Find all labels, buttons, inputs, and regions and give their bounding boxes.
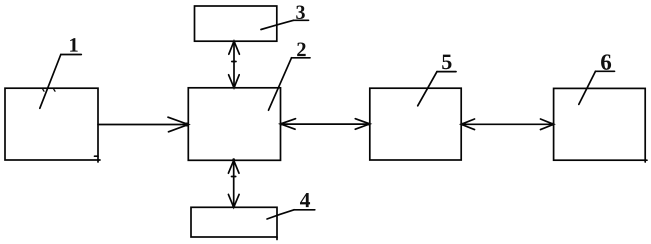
box 3 [195, 6, 277, 41]
tick on wire [232, 176, 236, 178]
arrowhead into box2 left [168, 117, 188, 132]
arrowhead at box6 left pointing right [541, 119, 554, 130]
box 1 corner overshoot ticks [95, 156, 101, 162]
arrowhead into box4 top pointing down [228, 194, 239, 207]
arrowhead at box5 right pointing left [461, 119, 474, 130]
box 4 [191, 207, 277, 237]
label 3 text [296, 6, 305, 19]
arrow tip blob at box4 top [232, 205, 235, 208]
arrowhead at box2 right pointing left [281, 119, 296, 130]
label 4 underline [294, 209, 315, 211]
box 6 corner overshoot tick [645, 160, 647, 162]
label 2 underline [292, 57, 311, 59]
wire double arrow box2 to box5 [281, 123, 370, 125]
wire arrow box1 to box2 [98, 124, 188, 126]
label 4 leader line [267, 210, 294, 219]
arrow tip blob at box6 left [551, 123, 554, 126]
label 6 leader line [579, 71, 596, 104]
arrow tip blob at box2 right [280, 123, 283, 126]
arrow tip blob at box2 bottom [232, 158, 235, 161]
label 1 leader line [40, 55, 61, 109]
box 6 [554, 88, 646, 160]
arrowhead into box3 bottom pointing up [229, 41, 240, 54]
label 5 underline [437, 71, 456, 73]
label 5 text [442, 55, 451, 70]
wire double arrow box5 to box6 [461, 123, 553, 125]
wire double arrow box2 to box4 [233, 160, 235, 207]
label 5 leader line [418, 72, 437, 106]
arrow tip blob at box5 left [368, 123, 371, 126]
wire double arrow box3 to box2 [233, 41, 235, 88]
arrow tip blob at box2 top [233, 86, 236, 89]
arrow tip blob at box5 right [461, 123, 464, 126]
box 2 [188, 88, 280, 161]
label 2 leader line [269, 58, 292, 110]
arrowhead into box2 top pointing down [229, 75, 240, 88]
label 3 leader line [261, 20, 294, 29]
box 1 top edge scan specks [43, 89, 55, 91]
label 6 underline [596, 70, 615, 72]
label 1 text [70, 38, 78, 52]
box 4 corner overshoot tick [276, 237, 278, 240]
box 1 [5, 88, 98, 160]
tick on wire [232, 61, 236, 63]
arrow tip blob at box2 left [185, 123, 189, 127]
arrowhead into box2 bottom pointing up [228, 160, 239, 173]
label 4 text [300, 193, 310, 207]
label 1 underline [61, 54, 82, 56]
arrow tip blob at box3 bottom [233, 41, 236, 44]
label 6 text [601, 54, 611, 69]
label 2 text [297, 43, 306, 57]
label 3 underline [294, 19, 309, 21]
arrowhead at box5 left pointing right [355, 119, 370, 130]
box 5 [370, 88, 461, 160]
